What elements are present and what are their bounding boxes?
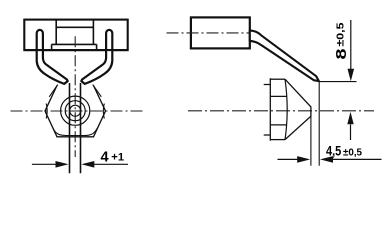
facet chamfer arc (285, 79, 287, 139)
nut side view left edge (269, 78, 271, 141)
dimension 4,5 left arrow (278, 158, 298, 160)
spring clip left (37, 30, 68, 84)
extension line horizontal at tip (318, 81, 356, 83)
cone flange (285, 79, 311, 139)
dimension line 4+1 left arrow (32, 163, 57, 165)
dimension 8 lower arrow (up to centerline) (350, 125, 352, 141)
block bottom edge redrawn (24, 49, 127, 51)
centerline through nut side (188, 110, 374, 112)
dimension line 4+1 right arrow (94, 163, 128, 165)
chamfer lens left vertex (46, 104, 47, 119)
facet lines (270, 96, 286, 125)
svg-text:±0,5: ±0,5 (343, 146, 362, 158)
hole circle (65, 101, 85, 121)
nut bottom edge (270, 139, 285, 141)
screw head slot detail (52, 20, 97, 50)
chamfer arc bottom face (53, 127, 98, 135)
screw shank lines (70, 83, 81, 173)
washer circle (61, 96, 90, 125)
dimension 4,5 right arrow (333, 158, 382, 160)
chamfer lens right vertex (103, 104, 104, 119)
nut top edge (270, 78, 285, 80)
chamfer stub top-left corner (49, 85, 58, 97)
horizontal centerline left (11, 110, 146, 112)
svg-text:8: 8 (333, 49, 350, 60)
flag terminal block (191, 17, 250, 48)
spring clip right (81, 30, 112, 84)
serration ticks (264, 85, 271, 136)
svg-text:4: 4 (101, 149, 109, 165)
vertical centerline (74, 36, 76, 157)
svg-text:±0,5: ±0,5 (335, 22, 347, 46)
dimension 8 line (350, 20, 352, 70)
flag strip (250, 30, 319, 81)
hexagon nut (45, 86, 106, 137)
chamfer stub top-right corner (93, 85, 102, 97)
svg-text:4,5: 4,5 (326, 142, 341, 158)
clamp body block (24, 20, 127, 50)
svg-text:+1: +1 (111, 151, 124, 163)
centerline through block (167, 32, 251, 34)
extension line from cone (310, 116, 312, 166)
extension line from strip tip (318, 81, 320, 166)
screw circle (70, 105, 81, 116)
